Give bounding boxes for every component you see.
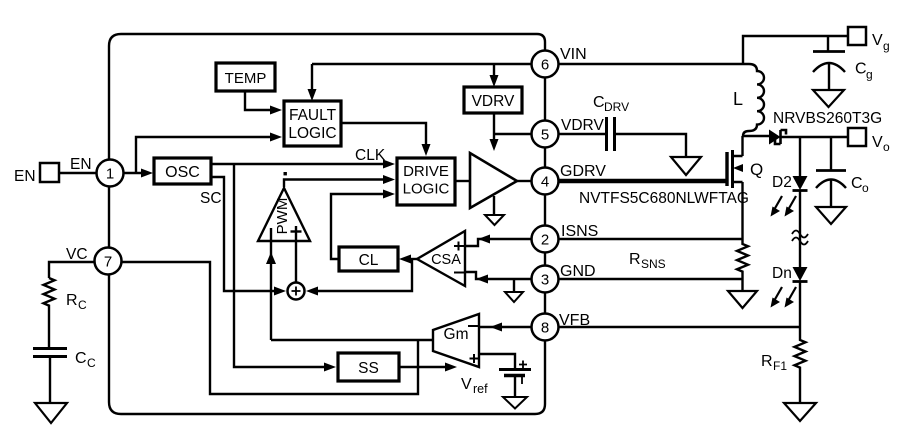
SS block [338,353,399,381]
ground below CDRV [671,157,701,175]
svg-text:CLK: CLK [355,147,386,164]
svg-text:o: o [883,140,890,154]
ground below driver [485,196,504,225]
svg-text:3: 3 [541,272,549,289]
svg-text:2: 2 [541,232,549,249]
pin 1 [97,160,124,187]
wire DRIVE LOGIC to driver [455,180,470,182]
svg-text:SNS: SNS [641,257,666,271]
wire VIN drop to VDRV [490,64,499,87]
LED D2 [793,176,808,191]
svg-text:C: C [855,61,867,78]
svg-text:C: C [593,94,605,111]
wire CLK OSC to DRIVE LOGIC [211,160,395,169]
svg-text:GDRV: GDRV [560,163,606,180]
pin 4 [532,168,559,195]
svg-text:6: 6 [541,57,549,74]
amplifier CSA [417,231,465,286]
svg-text:Q: Q [750,160,763,179]
wire CL out to DRIVE LOGIC [331,190,395,260]
svg-text:F1: F1 [773,359,787,373]
svg-text:LOGIC: LOGIC [288,125,336,142]
svg-text:R: R [629,251,641,268]
svg-text:GND: GND [560,263,596,280]
resistor RF1 [795,327,806,403]
svg-text:8: 8 [541,320,549,337]
break symbol [792,231,808,245]
svg-text:EN: EN [14,168,36,185]
svg-text:1: 1 [106,166,114,183]
wire pin3 to CSA minus [466,272,531,284]
svg-text:OSC: OSC [165,164,200,181]
wire TEMP to FAULT LOGIC [245,91,282,115]
svg-text:C: C [75,350,87,367]
svg-text:PWM: PWM [274,198,291,235]
pin 7 [95,248,122,275]
svg-text:CL: CL [359,252,379,269]
label RF1 [761,353,787,373]
svg-text:Gm: Gm [444,326,469,343]
wire Dn to VFB node [799,281,801,327]
light arrows Dn [771,287,797,308]
capacitor Co [816,137,846,207]
svg-text:g: g [866,68,873,82]
wire EN to pin1 [59,172,96,174]
pin 6 [532,51,559,78]
label Vref [461,376,488,396]
wire diode to Vo [780,136,848,138]
wire SS out to Gm [399,363,457,372]
ground below Cg [813,90,844,107]
ground below RSNS [728,291,757,308]
svg-text:g: g [883,39,890,53]
CL block [339,247,398,271]
svg-text:C: C [87,356,96,370]
wire Gm out rail to PWM [271,339,433,341]
wire pin8 to Gm minus [479,323,531,332]
wire CLK branch to SS [234,164,336,372]
svg-text:o: o [862,181,869,195]
svg-text:SS: SS [358,360,379,377]
svg-text:ISNS: ISNS [561,223,598,240]
terminal Vo [848,128,890,154]
svg-text:LOGIC: LOGIC [403,181,450,198]
svg-text:R: R [66,292,78,309]
svg-text:R: R [761,353,773,370]
inductor L [743,64,764,136]
svg-text:NVTFS5C680NLWFTAG: NVTFS5C680NLWFTAG [579,190,749,207]
wire pin8 VFB rail [558,326,800,328]
wire VC to Gm rail [122,262,418,394]
VDRV block [464,87,522,113]
label Cg [855,61,873,82]
wire driver out to pin4 [517,180,531,182]
wire pin3 GND rail [558,278,743,280]
svg-text:VDRV: VDRV [472,93,515,110]
wire pin6 VIN to inductor [558,63,743,65]
ground below Co [816,207,846,224]
pin 5 [532,121,559,148]
svg-text:TEMP: TEMP [225,70,267,87]
svg-text:4: 4 [541,174,549,191]
svg-text:Dn: Dn [772,265,792,282]
ground below RF1 [784,403,816,421]
resistor RC [44,278,55,348]
wire node to Vg [743,36,847,64]
wire EN branch to FAULT LOGIC [136,133,282,174]
wire Gm plus to Vref [479,354,515,369]
svg-text:L: L [733,89,743,109]
pin 8 [532,314,559,341]
svg-text:DRIVE: DRIVE [403,163,449,180]
wire FAULT LOGIC out to DRIVE LOGIC [341,123,431,156]
label Co [851,175,869,195]
node dot above PWM [284,172,287,175]
amplifier Gm [433,314,479,367]
wire CSA out to CL [399,255,417,264]
battery Vref [499,361,531,398]
comparator PWM [258,188,310,241]
wire pin7 VC to compensation [49,262,94,278]
wire SC OSC to summing node [211,177,286,296]
svg-text:DRV: DRV [604,100,629,114]
svg-text:V: V [872,32,883,49]
wire pin2 ISNS rail [558,238,743,240]
svg-text:ref: ref [473,382,488,396]
svg-text:VC: VC [66,246,88,263]
resistor RSNS [737,239,748,291]
label RC [66,292,87,312]
wire switch node [743,135,770,137]
wire PWM minus input from Gm rail [266,228,276,340]
wire VIN internal rail [312,63,531,65]
LED Dn [793,267,808,282]
ground below CC [35,403,67,423]
svg-text:VDRV: VDRV [561,117,604,134]
IC body outline U1 [109,34,545,414]
wire D2 to break [799,190,801,267]
capacitor Cg [813,36,845,90]
DRIVE LOGIC block [397,158,455,205]
capacitor CDRV [558,117,686,156]
svg-text:C: C [851,175,863,192]
PWM plus input [291,226,302,282]
svg-text:EN: EN [70,156,92,173]
terminal EN [14,163,59,185]
capacitor CC [33,349,67,404]
wire VDRV out to pin5 and driver [490,113,532,151]
svg-text:V: V [872,134,883,151]
FAULT LOGIC block [284,101,341,146]
svg-text:SC: SC [200,190,222,207]
label RSNS [629,251,666,271]
ground stub on pin3 wire [505,279,523,302]
light arrows D2 [771,196,797,217]
wire VIN drop to FAULT LOGIC [308,64,317,101]
ground below Vref [503,397,527,409]
svg-text:7: 7 [104,254,112,271]
wire pin1 to OSC [124,169,153,178]
summing node [288,283,305,300]
svg-text:FAULT: FAULT [289,107,337,124]
label CDRV [593,94,629,114]
svg-text:CSA: CSA [431,252,461,268]
pin 2 [532,226,559,253]
driver amplifier [470,153,517,208]
svg-text:NRVBS260T3G: NRVBS260T3G [773,110,882,127]
transistor Q [727,136,743,239]
terminal Vg [848,27,890,53]
svg-text:VIN: VIN [560,46,587,63]
OSC block [154,158,211,184]
svg-text:C: C [78,298,87,312]
wire PWM out to DRIVE LOGIC [284,175,395,187]
diode NRVBS260T3G [769,130,786,145]
wire LED string top [799,137,801,176]
pin 3 [532,266,559,293]
wire CSA drop to summing node [306,259,412,296]
label CC [75,350,96,370]
svg-text:D2: D2 [772,174,792,191]
svg-text:5: 5 [541,127,549,144]
wire GDRV thick [558,179,727,184]
wire pin2 to CSA plus [466,235,531,247]
TEMP block [216,63,275,91]
svg-text:V: V [461,376,472,393]
